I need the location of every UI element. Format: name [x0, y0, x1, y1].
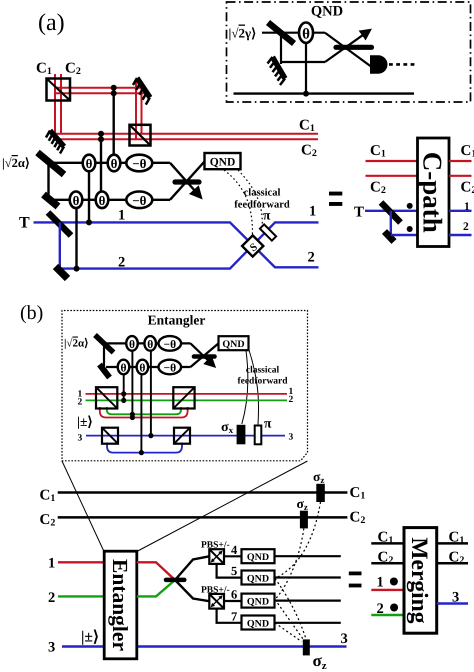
wire C1 in: [366, 160, 418, 162]
label C1 (b right): [350, 485, 366, 502]
svg-text:C1: C1: [40, 488, 56, 505]
phase shifter theta (inset QND): [299, 23, 313, 43]
beam splitter bar (inset QND cross): [336, 45, 372, 50]
wire green 2 into entangler: [58, 595, 104, 597]
svg-text:θ: θ: [73, 193, 80, 208]
feedforward curve to sigma-x: [242, 351, 248, 425]
svg-text:Entangler: Entangler: [108, 559, 132, 651]
mirror thick (inset b): [100, 365, 110, 378]
wire black to PBS1: [175, 556, 209, 580]
dotted feedforward curve to S diamond: [224, 170, 252, 235]
wire vertical A row2theta1 to line2: [123, 374, 125, 400]
label pi (inset): [264, 416, 272, 431]
svg-text:−θ: −θ: [132, 156, 146, 171]
label 3 (inset right): [289, 432, 294, 442]
sigma-z label on C1: [313, 469, 324, 485]
sigma-z label on line3: [313, 651, 327, 672]
wire row2 (inset b): [106, 366, 191, 368]
sigma-x gate black rect: [237, 425, 246, 445]
node dot lower before box: [407, 226, 413, 232]
label 4: [231, 543, 238, 557]
svg-text:3: 3: [341, 631, 348, 647]
svg-text:C1: C1: [370, 143, 386, 160]
sigma-z gate on line3: [303, 639, 310, 655]
sigma-z label on C2: [297, 496, 308, 512]
phase shifter theta b-row2-1: [118, 360, 130, 375]
PBS2 cube: [209, 594, 224, 609]
wire red 1 into entangler: [58, 561, 104, 563]
dashed QND6 to sigma-z3: [275, 600, 303, 640]
svg-text:θ: θ: [129, 339, 135, 351]
ket pm (b): [81, 629, 99, 646]
label 1 merging: [377, 575, 384, 591]
label 2 (inset right): [289, 395, 294, 405]
phase shifter theta b-row1-1: [126, 336, 138, 351]
label 2 (b left): [48, 590, 55, 606]
label 3 (inset left): [78, 434, 83, 444]
funnel line right: [137, 461, 308, 552]
red lower arc (inset): [100, 407, 188, 418]
wire blue 3 merging out: [437, 602, 468, 604]
svg-text:C1: C1: [461, 143, 474, 160]
svg-text:T: T: [354, 205, 364, 221]
label 1 (inset right): [289, 387, 294, 397]
mirror top right (hatched): [133, 78, 150, 105]
dashed output wire from detector: [389, 63, 416, 66]
node dot upper before box: [407, 203, 413, 209]
classical feedforward text (inset b): [237, 366, 288, 387]
svg-text:classical: classical: [244, 188, 281, 199]
wire green 2 merging in: [371, 614, 404, 616]
label 3 (b left): [48, 640, 55, 656]
Merging box: [404, 528, 437, 634]
wire theta row1-1 down to line1: [88, 171, 90, 222]
svg-text:1: 1: [309, 204, 316, 220]
svg-text:(b): (b): [20, 302, 43, 324]
wire cross row1 down arrow (inset b): [191, 343, 214, 365]
wire C1 (b): [58, 491, 348, 494]
svg-text:|±⟩: |±⟩: [77, 414, 93, 429]
svg-text:−θ: −θ: [164, 362, 177, 374]
mirror (inset QND, hatched): [268, 57, 286, 85]
svg-text:C2: C2: [350, 510, 366, 527]
beam splitter bar (a cross): [175, 179, 199, 184]
pi gate white rect (inset): [255, 426, 262, 445]
wire QND6 out: [275, 599, 341, 601]
wire blue 3 (b): [62, 645, 347, 647]
wire red pair horizontal middle to C-outputs: [50, 134, 318, 139]
node dot on line1: [86, 219, 92, 225]
wire C2 (b): [58, 516, 348, 519]
wire blue line2 in: [391, 234, 418, 236]
svg-text:C2: C2: [40, 512, 56, 529]
wire blue T in: [365, 210, 418, 212]
wire cross row2 up to QND (inset b): [191, 343, 219, 367]
svg-text:θ: θ: [147, 339, 153, 351]
phase shifter theta row1-2: [108, 155, 121, 172]
wire blue line2: [61, 222, 319, 268]
label C2 (b right): [350, 510, 366, 527]
label 6: [231, 588, 237, 602]
label 1 left: [118, 208, 125, 224]
QND inset title: [311, 4, 343, 20]
label pi (a): [263, 208, 271, 223]
label C2 top left: [65, 61, 81, 78]
wire BS down (inset b): [103, 343, 105, 372]
mirror row2 (thick): [44, 195, 59, 207]
wire blue 2 out: [449, 234, 472, 236]
beam splitter bar (inset b cross): [194, 354, 215, 359]
svg-text:feedforward: feedforward: [237, 377, 288, 387]
svg-text:θ: θ: [86, 156, 93, 171]
mirror thick (right): [385, 232, 395, 242]
svg-text:σx: σx: [221, 420, 234, 435]
panel label (b): [20, 302, 43, 324]
beam splitter thick on T (right): [381, 203, 401, 223]
wire green out of entangler: [137, 580, 175, 596]
crossing wire down to detector: [325, 33, 371, 67]
label 3 merging right: [452, 590, 459, 606]
crossing wire up with arrow: [325, 31, 369, 62]
phase shifter -theta row1: [126, 155, 152, 172]
QND box 7: [242, 616, 275, 630]
equals sign (a): [329, 192, 342, 206]
sigma-z gate on C1: [316, 484, 325, 502]
phase shifter -theta b-row1: [159, 336, 182, 351]
node junction dot on bottom rail: [303, 91, 309, 97]
wire blue line1: [34, 222, 319, 267]
svg-text:−θ: −θ: [132, 193, 146, 208]
wire C2 merging in: [371, 562, 404, 565]
svg-text:1: 1: [48, 556, 55, 572]
svg-text:C1: C1: [449, 530, 465, 547]
svg-text:θ: θ: [120, 362, 126, 374]
Entangler inset title: [148, 313, 206, 328]
feedforward curve to pi (inset b): [249, 350, 259, 425]
wire phase shifter to bottom rail: [305, 43, 307, 94]
beam splitter (thick diagonal) at sqrt2alpha: [38, 153, 65, 175]
svg-text:σz: σz: [313, 651, 327, 672]
BS cube right lines 1-2: [173, 387, 194, 408]
BS cube right line 3: [174, 428, 190, 444]
svg-text:|√2γ⟩: |√2γ⟩: [229, 26, 257, 41]
label C2 merging left: [378, 550, 394, 567]
ket sqrt2gamma: [229, 26, 257, 41]
wire PBS1 down to QND5: [217, 564, 242, 578]
QND box 5: [242, 571, 275, 585]
label 1 right of crossing: [309, 204, 316, 220]
wire PBS2 to QND6: [224, 600, 242, 602]
svg-text:|√2α⟩: |√2α⟩: [64, 338, 88, 350]
beam splitter thick (inset b): [95, 335, 114, 353]
svg-text:2: 2: [463, 221, 469, 233]
beam splitter cube BS2: [130, 125, 151, 146]
svg-text:2: 2: [48, 590, 55, 606]
svg-text:6: 6: [231, 588, 237, 602]
green lower arc (inset): [107, 407, 181, 414]
bottom rail wire: [234, 92, 415, 94]
label C1 (b left): [40, 488, 56, 505]
wire C2 out: [449, 175, 472, 177]
svg-text:4: 4: [231, 543, 238, 557]
wire red out of entangler: [137, 562, 175, 580]
svg-text:|√2α⟩: |√2α⟩: [2, 156, 30, 170]
label 1 (b left): [48, 556, 55, 572]
wire red pair vertical mirror to BS2: [136, 82, 142, 139]
svg-text:classical: classical: [246, 366, 280, 376]
svg-text:2: 2: [308, 250, 315, 266]
wire black to PBS2: [175, 580, 209, 601]
label C2 merging right: [449, 550, 465, 567]
label 2 merging: [377, 601, 384, 617]
Entangler inset dotted border: [62, 311, 308, 461]
wire cross row1 down with arrow: [170, 163, 200, 197]
node dots vertical B: [130, 412, 135, 420]
label 2 right of crossing: [308, 250, 315, 266]
svg-text:C1: C1: [36, 61, 52, 78]
wire blue line3 (inset): [86, 435, 285, 437]
phase shifter theta b-row2-2: [137, 360, 149, 375]
wire PBS2 down to QND7: [217, 609, 242, 623]
wire vertical D row1theta2 to line3: [150, 351, 152, 436]
node dot on 1 merging: [390, 578, 398, 586]
node dots vertical A: [121, 391, 126, 403]
mirror left (hatched): [46, 131, 64, 154]
svg-text:QND: QND: [311, 4, 343, 20]
svg-text:θ: θ: [302, 27, 310, 43]
BS cube left line 3: [102, 428, 118, 444]
wire red line1 (inset): [86, 393, 288, 395]
dashed feedforward sigma-zC1 to QND5: [275, 502, 321, 579]
svg-text:7: 7: [231, 610, 237, 624]
label C1 top left: [36, 61, 52, 78]
wire QND7 out: [275, 622, 341, 624]
dashed QND5 to sigma-z3: [275, 579, 306, 638]
label 1 out: [464, 201, 470, 213]
svg-text:2: 2: [78, 397, 83, 407]
svg-text:2: 2: [118, 255, 125, 271]
label 7: [231, 610, 237, 624]
phase shifter -theta row2: [126, 192, 152, 209]
svg-text:1: 1: [377, 575, 384, 591]
S diamond switch: [242, 235, 263, 256]
wire vertical from middle red pair to row2 theta2: [100, 134, 102, 193]
pi plate (tilted) on crossing: [260, 224, 276, 240]
blue lower arc (inset): [107, 443, 182, 453]
svg-text:σz: σz: [313, 469, 324, 485]
svg-text:Merging: Merging: [406, 537, 432, 623]
BS cube left lines 1-2: [96, 387, 117, 408]
label C2 (b left): [40, 512, 56, 529]
svg-text:−θ: −θ: [164, 339, 177, 351]
wire PBS1 to QND4: [224, 555, 242, 557]
wire C2 merging out: [437, 562, 468, 565]
svg-text:QND: QND: [247, 574, 269, 585]
beam splitter (inset QND): [268, 23, 294, 44]
node dots on top red pair: [111, 85, 117, 96]
label 2 left: [118, 255, 125, 271]
phase shifter theta b-row1-2: [144, 336, 156, 351]
wire red pair vertical into BS1: [55, 74, 61, 139]
wire BS down vertical: [47, 163, 49, 200]
wire vertical B row1theta1 to red arc: [131, 351, 133, 418]
Entangler box: [104, 551, 137, 659]
wire vertical C row2theta2 to blue arc: [140, 374, 142, 452]
svg-text:C2: C2: [65, 61, 81, 78]
C-path box: [418, 138, 450, 247]
funnel line left: [62, 461, 104, 552]
wire red 1 merging in: [371, 589, 404, 591]
node dot vertical D: [148, 433, 153, 438]
svg-text:C1: C1: [350, 485, 366, 502]
node dot on 2 merging: [390, 604, 398, 612]
phase shifter theta row2-1: [70, 192, 83, 209]
svg-text:QND: QND: [247, 619, 269, 630]
svg-text:C2: C2: [301, 143, 317, 160]
label T: [19, 215, 30, 232]
label 3 (b right): [341, 631, 348, 647]
label 5: [231, 564, 237, 578]
node dot vertical C: [139, 450, 144, 455]
wire green line2 (inset): [86, 399, 288, 401]
svg-text:(a): (a): [38, 10, 65, 36]
svg-text:T: T: [19, 215, 30, 232]
QND box 6: [242, 594, 275, 608]
svg-text:C2: C2: [370, 180, 386, 197]
node dots on middle red pair: [98, 131, 104, 142]
wire C2 in: [366, 175, 418, 177]
label C2 out: [461, 180, 474, 197]
QND box (a): [205, 153, 241, 169]
phase shifter theta row1-1: [83, 155, 96, 172]
ket sqrt2alpha: [2, 156, 30, 170]
wire row1 (inset b): [104, 342, 191, 344]
beam splitter (thick) on T: [48, 213, 71, 236]
phase shifter -theta b-row2: [159, 360, 182, 375]
equals sign (b): [349, 572, 362, 588]
label 1 (inset left): [78, 389, 83, 399]
wire row2 horizontal: [52, 199, 170, 201]
wire C1 out: [449, 160, 472, 162]
svg-text:QND: QND: [210, 157, 236, 169]
PBS1 label: [201, 540, 230, 550]
label 2 out: [463, 221, 469, 233]
svg-text:5: 5: [231, 564, 237, 578]
label C1 merging right: [449, 530, 465, 547]
beam splitter bar (b main): [166, 578, 184, 583]
node dot on line2: [74, 266, 80, 272]
phase shifter theta row2-2: [96, 192, 109, 209]
svg-text:|±⟩: |±⟩: [81, 629, 99, 646]
wire C1 merging in: [371, 542, 404, 545]
wire blue vertical (right): [390, 211, 392, 235]
ket sqrt2alpha (inset b): [64, 338, 88, 350]
QND box 4: [242, 549, 275, 563]
wire BS vertical: [280, 33, 282, 64]
svg-text:π: π: [264, 416, 272, 431]
panel label (a): [38, 10, 65, 36]
wire QND5 out: [275, 576, 341, 578]
label C1 out: [461, 143, 474, 160]
wire cross row2 up to QND: [170, 162, 205, 200]
svg-text:1: 1: [118, 208, 125, 224]
wire vertical from top red pair to row1 theta2: [112, 88, 114, 156]
dashed feedforward sigma-zC2 to QND6: [275, 529, 304, 600]
svg-text:3: 3: [78, 434, 83, 444]
detector D: [370, 55, 387, 73]
svg-text:σz: σz: [297, 496, 308, 512]
label C1 middle right: [299, 118, 315, 135]
svg-text:θ: θ: [139, 362, 145, 374]
PBS2 label: [201, 586, 230, 596]
svg-text:QND: QND: [247, 552, 269, 563]
label C2 middle right: [301, 143, 317, 160]
svg-text:π: π: [263, 208, 271, 223]
wire red pair horizontal BS1 to top mirror: [55, 88, 147, 93]
label C1 merging left: [378, 530, 394, 547]
svg-text:θ: θ: [111, 156, 118, 171]
svg-text:1: 1: [464, 201, 470, 213]
wire blue 1 out: [449, 210, 472, 212]
svg-text:θ: θ: [99, 193, 106, 208]
wire blue vertical: [59, 222, 61, 268]
label C1 in left: [370, 143, 386, 160]
dotted feedforward curve to pi plate: [238, 170, 262, 225]
sigma-z gate on C2: [300, 511, 308, 529]
mirror blue (thick): [56, 267, 68, 279]
wire theta row2-1 down to line2: [75, 208, 77, 269]
sigma-x label (inset): [221, 420, 234, 435]
svg-text:QND: QND: [247, 597, 269, 608]
svg-text:C2: C2: [461, 180, 474, 197]
ket pm (inset): [77, 414, 93, 429]
QND box (inset b): [219, 336, 249, 350]
QND inset dash-dot border: [227, 2, 471, 102]
wire lower rail from mirror: [281, 61, 325, 63]
wire C1 merging out: [437, 542, 468, 545]
classical feedforward text (a): [234, 188, 290, 211]
wire top rail: [262, 32, 325, 34]
label T right circuit: [354, 205, 364, 221]
label 2 (inset left): [78, 397, 83, 407]
svg-text:3: 3: [48, 640, 55, 656]
svg-text:2: 2: [289, 395, 294, 405]
svg-text:3: 3: [289, 432, 294, 442]
svg-text:C2: C2: [449, 550, 465, 567]
beam splitter cube BS1: [47, 79, 71, 101]
svg-text:C1: C1: [299, 118, 315, 135]
label C2 in left: [370, 180, 386, 197]
wire QND4 out: [275, 555, 341, 557]
svg-text:QND: QND: [222, 339, 244, 350]
dashed QND7 to sigma-z3: [275, 623, 302, 642]
PBS1 cube: [209, 549, 224, 564]
svg-text:Entangler: Entangler: [148, 313, 206, 328]
wire row1 horizontal: [49, 162, 170, 164]
svg-text:C-path: C-path: [418, 152, 448, 233]
